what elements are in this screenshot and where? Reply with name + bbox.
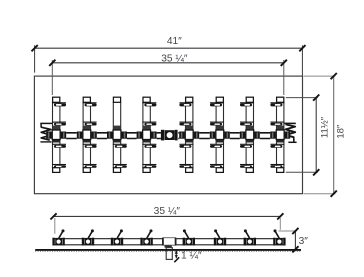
burner branch 8 (vertical pipe with caps, nozzles, cross fitting) (270, 97, 290, 172)
dimension 41 inch (overall width) (32, 36, 306, 76)
side view: inlet tee (163, 238, 176, 246)
dimension 18 inch (overall depth) (304, 73, 347, 197)
mounting surface line (35, 250, 301, 251)
side view: branch fitting 6 with igniter tick (214, 229, 226, 245)
right flex connector (zigzag) (284, 123, 296, 142)
side view: branch fitting 7 with igniter tick (244, 229, 256, 245)
dimension 1 1/4 inch (stub below surface) (174, 249, 202, 262)
burner branch 7 (vertical pipe with caps, nozzles, cross fitting) (240, 97, 260, 172)
burner branch 6 (vertical pipe with caps, nozzles, cross fitting) (210, 97, 230, 172)
svg-text:35 ¼″: 35 ¼″ (161, 52, 188, 64)
svg-text:11½″: 11½″ (320, 116, 331, 138)
burner branch 4 (vertical pipe with caps, nozzles, cross fitting) (137, 97, 157, 172)
manifold pipe (horizontal) (66, 132, 270, 134)
union coupling (center of manifold) (161, 130, 178, 141)
side view: branch fitting 1 with igniter tick (52, 229, 64, 245)
burner branch 5 (vertical pipe with caps, nozzles, cross fitting) (179, 97, 199, 172)
svg-text:18″: 18″ (336, 124, 347, 139)
burner branch 2 (vertical pipe with caps, nozzles, cross fitting) (77, 97, 97, 172)
dimension 35 1/4 inch (side view) (50, 205, 283, 234)
side view: branch fitting 8 with igniter tick (273, 229, 285, 245)
fire pit pan outline (top view rectangle) (34, 76, 302, 194)
dimension 35 1/4 inch (branch span, top view) (49, 52, 287, 95)
side view: branch fitting 5 with igniter tick (183, 229, 195, 245)
burner branch 1 (vertical pipe with caps, nozzles, cross fitting) (46, 97, 66, 172)
side view: branch fitting 4 with igniter tick (140, 229, 152, 245)
burner branch 3 (vertical pipe with caps, nozzles, cross fitting) (107, 97, 127, 172)
svg-text:35 ¼″: 35 ¼″ (154, 205, 181, 217)
side view: branch fitting 3 with igniter tick (111, 229, 123, 245)
dimension 11 1/2 inch (branch height) (286, 95, 331, 176)
left flex connector (zigzag) (40, 123, 52, 141)
svg-text:1 ¼″: 1 ¼″ (181, 249, 202, 261)
svg-text:3″: 3″ (299, 236, 309, 247)
dimension 3 inch (height above surface) (279, 228, 309, 253)
svg-text:41″: 41″ (167, 36, 182, 47)
side view: branch fitting 2 with igniter tick (82, 229, 94, 245)
side view: manifold tube (55, 239, 285, 245)
side view: inlet stub below tee (165, 245, 173, 259)
